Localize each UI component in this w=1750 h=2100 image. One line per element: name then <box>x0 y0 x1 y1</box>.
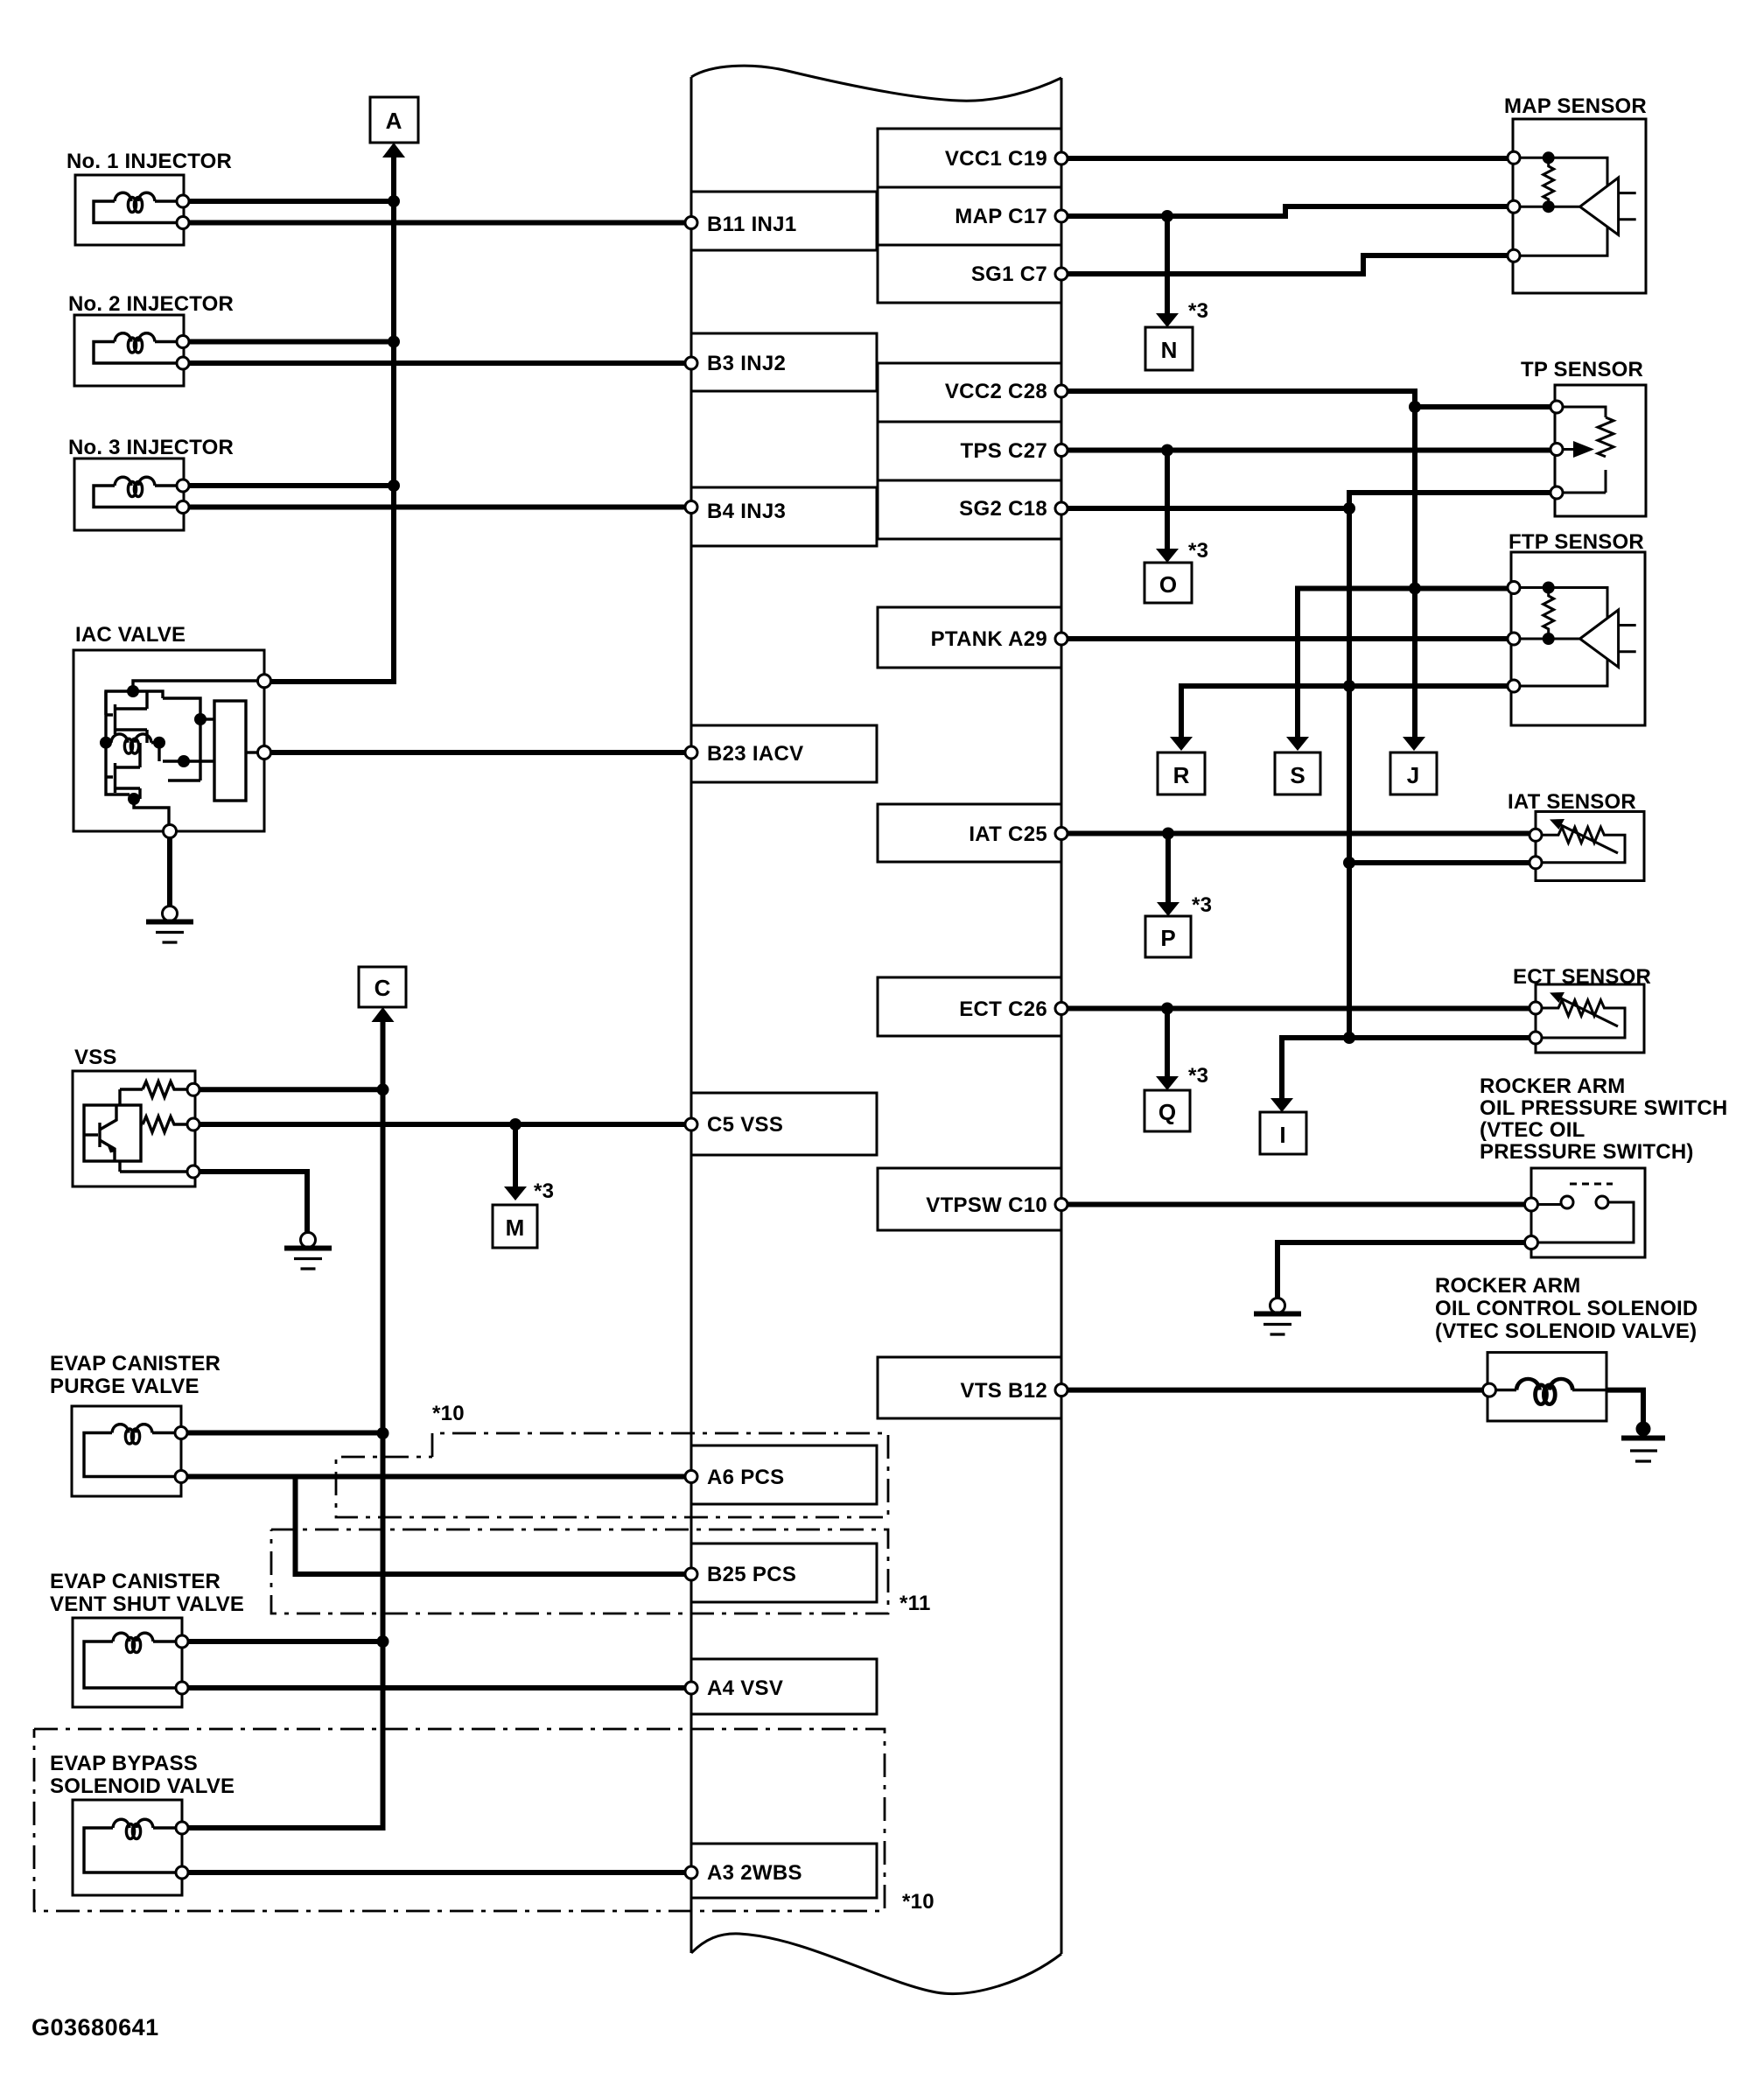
svg-text:(VTEC OIL: (VTEC OIL <box>1480 1118 1585 1142</box>
svg-text:TPS C27: TPS C27 <box>961 439 1047 463</box>
svg-text:VCC1 C19: VCC1 C19 <box>945 147 1047 171</box>
wire IAT C25 to IAT sensor <box>1061 831 1536 836</box>
svg-text:OIL CONTROL SOLENOID: OIL CONTROL SOLENOID <box>1435 1297 1697 1320</box>
svg-text:SOLENOID VALVE: SOLENOID VALVE <box>50 1774 234 1798</box>
No. 1 INJECTOR <box>66 150 232 245</box>
svg-text:MAP SENSOR: MAP SENSOR <box>1504 94 1647 118</box>
ECU terminal circles left pins <box>685 217 697 229</box>
arrow to N ref <box>1165 216 1170 313</box>
svg-text:VTPSW C10: VTPSW C10 <box>926 1193 1047 1217</box>
junction dot <box>1343 502 1355 514</box>
junction dot P-branch <box>1162 828 1174 840</box>
junction dot <box>388 195 400 207</box>
svg-text:M: M <box>506 1214 525 1241</box>
wire SG1 C7 to MAP sensor <box>1061 255 1514 274</box>
wire IAC ground lead <box>167 837 172 906</box>
IAC VALVE <box>73 623 264 831</box>
wire VTS B12 to solenoid <box>1061 1388 1489 1393</box>
pin A4 VSV <box>691 1659 877 1714</box>
svg-text:N: N <box>1161 337 1178 363</box>
arrow to J ref <box>1412 589 1417 738</box>
wire A-line vertical <box>262 155 394 682</box>
junction dot N-branch <box>1161 210 1173 222</box>
wire PTANK A29 to FTP sensor <box>1061 636 1514 641</box>
TP SENSOR <box>1521 358 1646 516</box>
wire injector2 bottom to B3 INJ2 <box>189 360 691 366</box>
svg-text:Q: Q <box>1158 1099 1176 1125</box>
No. 3 INJECTOR <box>68 436 234 530</box>
harness boundary *11 <box>271 1529 888 1613</box>
junction dot <box>1409 583 1421 595</box>
svg-text:R: R <box>1173 762 1190 788</box>
svg-text:B23 IACV: B23 IACV <box>707 742 803 766</box>
ROCKER ARM OIL CONTROL SOLENOID label <box>1435 1274 1697 1343</box>
svg-text:PTANK A29: PTANK A29 <box>931 627 1047 651</box>
pin group VCC1 C19 / MAP C17 / SG1 C7 <box>878 129 1061 303</box>
connector ref I box <box>1260 1112 1306 1154</box>
svg-text:FTP SENSOR: FTP SENSOR <box>1508 530 1644 554</box>
wire bypass valve bottom to A3 2WBS <box>188 1870 691 1875</box>
junction dot <box>377 1083 389 1095</box>
wire purge valve bottom to A6 PCS <box>187 1474 691 1480</box>
svg-text:B3 INJ2: B3 INJ2 <box>707 352 786 375</box>
terminal circles bypass valve <box>176 1822 188 1834</box>
connector ref P box <box>1145 916 1191 957</box>
svg-text:EVAP BYPASS: EVAP BYPASS <box>50 1752 198 1775</box>
wire injector2 top to A-line <box>189 339 394 345</box>
pin VTS B12 <box>878 1357 1061 1418</box>
wire injector3 bottom to B4 INJ3 <box>189 505 691 510</box>
wire C-line vertical <box>187 1019 383 1828</box>
svg-text:ROCKER ARM: ROCKER ARM <box>1435 1274 1580 1298</box>
svg-text:EVAP CANISTER: EVAP CANISTER <box>50 1570 220 1593</box>
svg-text:OIL PRESSURE SWITCH: OIL PRESSURE SWITCH <box>1480 1096 1727 1120</box>
wire vent shut valve top to C-line <box>188 1639 383 1644</box>
pin B25 PCS <box>691 1543 877 1602</box>
connector ref J box <box>1390 752 1437 794</box>
wire IAT bottom to SG2 vertical <box>1349 860 1536 865</box>
wire injector1 bottom to B11 INJ1 <box>189 220 691 226</box>
connector ref N box <box>1145 327 1193 370</box>
svg-text:TP SENSOR: TP SENSOR <box>1521 358 1643 381</box>
pin B3 INJ2 <box>691 333 877 391</box>
arrow to O ref <box>1165 451 1170 549</box>
EVAP BYPASS SOLENOID VALVE <box>50 1752 234 1895</box>
harness boundary *10 (upper) <box>336 1433 888 1517</box>
svg-text:VCC2 C28: VCC2 C28 <box>945 380 1047 403</box>
svg-text:*10: *10 <box>902 1890 934 1914</box>
svg-text:*3: *3 <box>1188 539 1208 563</box>
svg-text:C5 VSS: C5 VSS <box>707 1113 783 1137</box>
svg-text:IAT C25: IAT C25 <box>969 822 1047 846</box>
junction dot M-branch <box>509 1118 521 1130</box>
terminal circles injector1 <box>177 195 189 207</box>
connector ref O box <box>1144 563 1192 603</box>
svg-text:G03680641: G03680641 <box>31 2014 159 2040</box>
wire ECT bottom to I ref <box>1282 1038 1536 1098</box>
svg-text:EVAP CANISTER: EVAP CANISTER <box>50 1352 220 1375</box>
pin ECT C26 <box>878 977 1061 1036</box>
svg-text:VENT SHUT VALVE: VENT SHUT VALVE <box>50 1592 244 1616</box>
junction dot <box>388 479 400 492</box>
svg-text:No. 2 INJECTOR: No. 2 INJECTOR <box>68 292 234 316</box>
pin C5 VSS <box>691 1093 877 1155</box>
junction dot O-branch <box>1161 444 1173 457</box>
terminal circles vent shut valve <box>176 1635 188 1648</box>
wire VSS top terminal to C-line <box>199 1087 383 1092</box>
arrow to P ref <box>1165 834 1171 903</box>
No. 2 INJECTOR <box>68 292 234 386</box>
wire IAC middle terminal to B23 IACV <box>270 750 691 755</box>
connector ref S box <box>1275 752 1320 794</box>
svg-text:ROCKER ARM: ROCKER ARM <box>1480 1074 1625 1098</box>
junction dot <box>1343 1032 1355 1044</box>
svg-text:A6 PCS: A6 PCS <box>707 1466 785 1489</box>
junction dot <box>388 336 400 348</box>
wire branch to B25 PCS <box>296 1477 692 1575</box>
svg-text:P: P <box>1160 925 1175 951</box>
IAT SENSOR <box>1508 790 1644 881</box>
svg-text:SG2 C18: SG2 C18 <box>959 497 1047 521</box>
ECU terminal circles right pins <box>1055 152 1067 164</box>
junction dot <box>377 1427 389 1439</box>
pressure switch (VTEC oil pressure switch) <box>1525 1168 1646 1257</box>
ground pressure switch <box>1254 1298 1301 1335</box>
svg-text:(VTEC SOLENOID VALVE): (VTEC SOLENOID VALVE) <box>1435 1319 1697 1343</box>
svg-text:C: C <box>374 975 391 1001</box>
ROCKER ARM OIL PRESSURE SWITCH label <box>1480 1074 1727 1164</box>
arrow to Q ref <box>1165 1009 1170 1077</box>
svg-text:*11: *11 <box>899 1592 931 1615</box>
pin A3 2WBS <box>691 1844 877 1898</box>
wire injector1 top to A-line <box>189 199 394 204</box>
wire FTP top (to S ref) <box>1298 589 1514 738</box>
pin B4 INJ3 <box>691 487 877 546</box>
wire solenoid to ground <box>1606 1390 1643 1426</box>
wire purge valve top to C-line <box>187 1431 383 1436</box>
wire VCC1 C19 to MAP sensor <box>1061 156 1514 161</box>
wire injector3 top to A-line <box>189 483 394 488</box>
svg-text:*3: *3 <box>1192 893 1212 917</box>
EVAP CANISTER PURGE VALVE <box>50 1352 220 1496</box>
pin B11 INJ1 <box>691 192 877 250</box>
wire SG2 C18 to TP sensor <box>1061 493 1557 508</box>
svg-text:PURGE VALVE: PURGE VALVE <box>50 1375 199 1398</box>
wire ECT C26 to ECT sensor <box>1061 1006 1536 1011</box>
svg-text:*3: *3 <box>534 1179 554 1203</box>
MAP SENSOR <box>1504 94 1647 293</box>
svg-text:ECT C26: ECT C26 <box>959 997 1047 1021</box>
terminal circles injector2 <box>177 336 189 348</box>
svg-text:IAT SENSOR: IAT SENSOR <box>1508 790 1636 814</box>
wire VTPSW C10 to pressure switch <box>1061 1202 1531 1207</box>
ground VSS <box>284 1233 332 1270</box>
connector ref R box <box>1158 752 1205 794</box>
connector ref Q box <box>1144 1090 1190 1131</box>
svg-text:B4 INJ3: B4 INJ3 <box>707 500 786 523</box>
svg-text:No. 1 INJECTOR: No. 1 INJECTOR <box>66 150 232 173</box>
svg-text:A: A <box>386 108 402 134</box>
ECT SENSOR <box>1513 965 1651 1053</box>
svg-text:A3 2WBS: A3 2WBS <box>707 1861 802 1885</box>
svg-text:B25 PCS: B25 PCS <box>707 1563 796 1586</box>
pin PTANK A29 <box>878 607 1061 668</box>
pin B23 IACV <box>691 725 877 782</box>
junction dot <box>1343 680 1355 692</box>
wire MAP C17 to MAP sensor <box>1061 206 1514 216</box>
pin group VCC2 C28 / TPS C27 / SG2 C18 <box>878 363 1061 539</box>
svg-text:I: I <box>1279 1122 1285 1148</box>
svg-text:B11 INJ1: B11 INJ1 <box>707 213 796 236</box>
VTEC solenoid valve <box>1483 1353 1607 1421</box>
ECU/PCM connector body outline <box>691 66 1061 1993</box>
connector ref M box <box>493 1205 537 1248</box>
svg-text:A4 VSV: A4 VSV <box>707 1676 783 1700</box>
wire SG2 vertical down to ECT bottom <box>1347 508 1352 1038</box>
wire pressure switch to ground <box>1277 1242 1524 1298</box>
arrow to M ref <box>513 1124 518 1186</box>
svg-text:*3: *3 <box>1188 1064 1208 1088</box>
pin A6 PCS <box>691 1445 877 1504</box>
harness boundary *10 (lower) <box>34 1729 885 1911</box>
wire FTP bottom (to R ref) <box>1181 686 1514 737</box>
wire VCC2 down to FTP sensor <box>1412 407 1417 589</box>
wire VSS middle terminal to C5 VSS <box>199 1122 691 1127</box>
wire vent shut valve bottom to A4 VSV <box>188 1685 691 1690</box>
svg-text:S: S <box>1290 762 1305 788</box>
ground solenoid (filled) <box>1621 1422 1665 1462</box>
svg-text:IAC VALVE: IAC VALVE <box>75 623 185 647</box>
terminal circles purge valve <box>175 1427 187 1439</box>
terminal circles injector3 <box>177 479 189 492</box>
junction dot <box>1343 857 1355 869</box>
wire VCC2 C28 to TP sensor <box>1061 391 1557 407</box>
junction dot <box>377 1635 389 1648</box>
pin VTPSW C10 <box>878 1168 1061 1230</box>
terminal circles VSS <box>187 1083 199 1095</box>
svg-text:VTS B12: VTS B12 <box>961 1379 1047 1403</box>
svg-text:VSS: VSS <box>74 1046 117 1069</box>
svg-text:PRESSURE SWITCH): PRESSURE SWITCH) <box>1480 1140 1694 1164</box>
svg-text:O: O <box>1159 571 1177 598</box>
EVAP CANISTER VENT SHUT VALVE <box>50 1570 244 1707</box>
pin IAT C25 <box>878 804 1061 862</box>
wire TPS C27 to TP sensor <box>1061 448 1557 453</box>
FTP SENSOR <box>1508 530 1645 725</box>
svg-text:J: J <box>1407 762 1419 788</box>
connector ref C box <box>359 967 406 1022</box>
VSS sensor <box>73 1046 195 1186</box>
connector ref A box <box>370 97 418 157</box>
junction dot Q-branch <box>1161 1003 1173 1015</box>
ground IAC <box>146 906 193 943</box>
terminal circles IAC <box>258 675 271 688</box>
wire VSS bottom terminal to ground <box>199 1172 307 1233</box>
svg-text:SG1 C7: SG1 C7 <box>971 262 1047 286</box>
svg-text:*10: *10 <box>432 1402 465 1425</box>
junction dot <box>1409 401 1421 413</box>
svg-text:*3: *3 <box>1188 299 1208 323</box>
svg-text:No. 3 INJECTOR: No. 3 INJECTOR <box>68 436 234 459</box>
svg-text:MAP C17: MAP C17 <box>955 205 1047 228</box>
